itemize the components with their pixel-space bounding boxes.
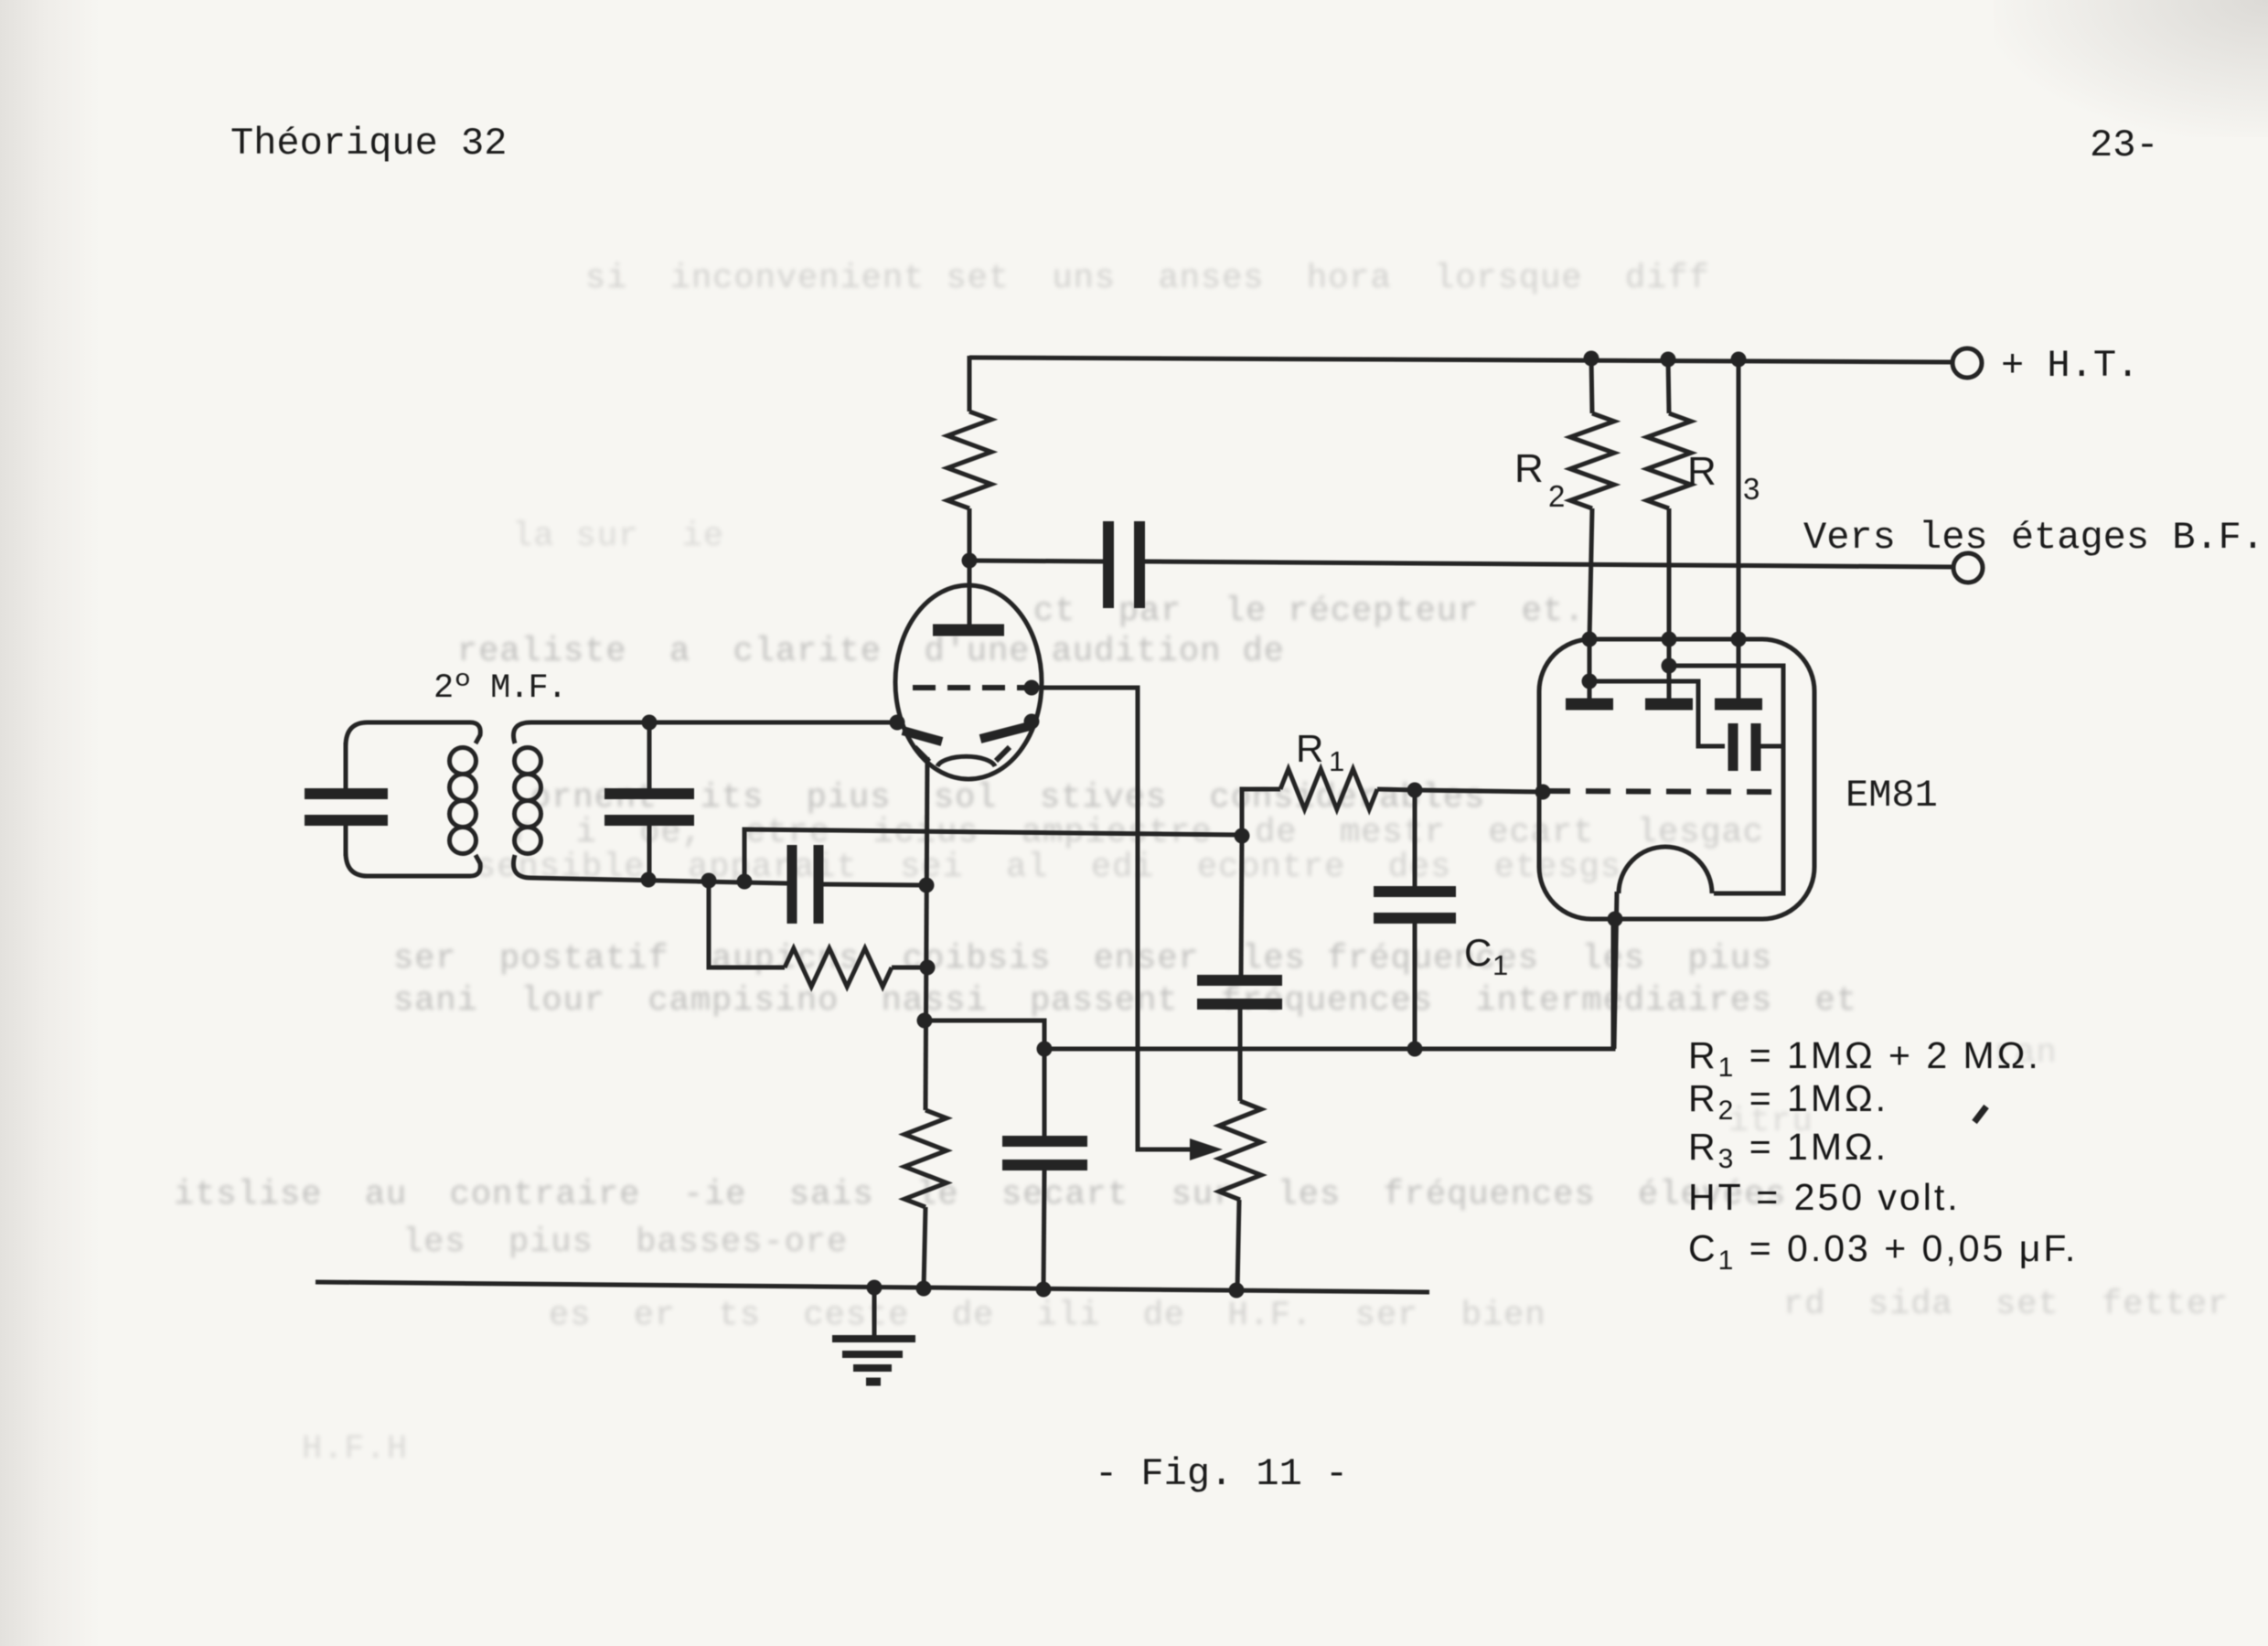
ground symbol: stub <box>872 1288 877 1338</box>
triode V1: envelope <box>895 585 1042 779</box>
EM81: internal link to cap left <box>1589 681 1725 746</box>
node: ground symbol junction <box>867 1280 883 1296</box>
node: EM81 top entry 1 <box>1582 632 1598 647</box>
svg-text:HT = 250 volt.: HT = 250 volt. <box>1688 1176 1961 1218</box>
EM81: electrode lead 3 <box>1737 639 1741 699</box>
node: C1 bottom junction <box>1407 1042 1423 1057</box>
svg-text:2: 2 <box>1548 479 1565 513</box>
capacitor: BF coupling, right plate <box>1134 521 1145 608</box>
wire: R2 bottom lead <box>1589 508 1592 639</box>
ground symbol: bar 1 <box>832 1335 915 1342</box>
resistor R1 <box>1280 769 1377 809</box>
node: EM81 internal node 1 <box>1582 674 1598 689</box>
node: junction R2 on HT rail <box>1584 351 1599 367</box>
triode V1: cathode arc <box>937 756 995 766</box>
capacitor: cathode bypass, bottom plate <box>1002 1160 1087 1170</box>
svg-text:R2 = 1MΩ.: R2 = 1MΩ. <box>1688 1077 1888 1126</box>
capacitor: EM81 internal, left plate <box>1728 723 1738 771</box>
node: bypass cap junction <box>1037 1042 1053 1057</box>
svg-text:R: R <box>1514 446 1544 491</box>
EM81: internal link cap right <box>1760 744 1783 749</box>
node: bypass cap on ground bus <box>1036 1282 1052 1298</box>
EM81: electrode plate 3 <box>1715 699 1762 711</box>
capacitor C1: bottom plate <box>1374 913 1456 924</box>
svg-text:3: 3 <box>1743 472 1760 506</box>
ground symbol: bar 2 <box>842 1351 903 1358</box>
capacitor: cathode bypass, top lead <box>1043 1049 1047 1137</box>
svg-text:+ H.T.: + H.T. <box>2001 344 2139 388</box>
capacitor: cathode bypass, top plate <box>1002 1136 1087 1147</box>
wire: C1 top lead <box>1413 790 1417 887</box>
EM81: cathode arc <box>1619 847 1712 893</box>
wire: grid cap to cathode line <box>823 884 926 885</box>
capacitor: secondary tuning, top plate <box>604 788 694 799</box>
ground symbol: bar 4 <box>866 1378 881 1386</box>
resistor: grid leak <box>785 948 892 987</box>
stray mark <box>1974 1106 1986 1122</box>
capacitor: grid cap left plate <box>787 845 797 924</box>
IF secondary: bottom wire <box>513 855 787 883</box>
node: grid leak on cathode line <box>920 960 936 976</box>
node: grid exit of triode <box>1024 680 1040 696</box>
capacitor: grid cap right plate <box>814 845 824 924</box>
node: secondary cap top <box>642 715 658 731</box>
svg-text:R: R <box>1687 449 1717 494</box>
EM81: electrode lead 1 <box>1588 639 1592 699</box>
IF secondary: cap top lead <box>647 722 652 789</box>
capacitor: BF coupling, left plate <box>1103 521 1114 608</box>
node: cathode resistor on ground bus <box>916 1281 932 1297</box>
capacitor: detector filter, bottom plate <box>1197 999 1282 1010</box>
node: R1 left junction <box>1235 828 1250 844</box>
node: AVC branch down <box>701 873 717 889</box>
arrow: potentiometer wiper <box>1190 1138 1223 1160</box>
triode V1: right diode tick <box>996 747 1010 761</box>
svg-text:1: 1 <box>1329 745 1344 777</box>
resistor R3 <box>1647 413 1691 508</box>
node: AVC branch up <box>737 874 753 890</box>
capacitor: EM81 internal, right plate <box>1751 723 1761 771</box>
EM81: electrode lead 2 <box>1667 639 1672 699</box>
node: R1 right / C1 top <box>1407 783 1423 798</box>
wire: grid leak to cathode line <box>892 966 927 970</box>
node: cathode branch junction <box>917 1013 933 1029</box>
EM81: internal right-side link <box>1669 666 1783 893</box>
capacitor: secondary tuning, bottom plate <box>604 815 694 826</box>
ground symbol: bar 3 <box>853 1364 892 1372</box>
svg-text:1: 1 <box>1492 949 1508 981</box>
svg-text:R: R <box>1296 727 1323 770</box>
EM81: electrode plate 2 <box>1645 699 1693 711</box>
node: junction wire-3 on HT rail <box>1731 352 1747 368</box>
wire: R1 node to EM81 grid <box>1415 790 1544 792</box>
node: EM81 top entry 2 <box>1662 632 1677 647</box>
capacitor C1: top plate <box>1374 886 1456 897</box>
node: EM81 top entry 3 <box>1731 632 1747 647</box>
wire: R3 top lead <box>1668 359 1669 413</box>
resistor: volume potentiometer <box>1219 1101 1261 1200</box>
wire: R1 left lead <box>1242 789 1280 836</box>
triode V1: left diode plate <box>903 731 942 742</box>
capacitor: primary tuning, bottom plate <box>305 815 388 826</box>
triode V1: left diode tick <box>915 747 929 762</box>
node: grid cap on cathode line <box>919 878 935 893</box>
IF primary: cap top lead <box>344 743 348 789</box>
svg-text:R1 = 1MΩ + 2 MΩ.: R1 = 1MΩ + 2 MΩ. <box>1688 1034 2041 1083</box>
terminal: + H.T. <box>1952 348 1982 378</box>
svg-text:2º M.F.: 2º M.F. <box>433 669 566 708</box>
triode V1: anode plate <box>933 625 1004 636</box>
svg-text:Théorique 32: Théorique 32 <box>230 122 507 166</box>
wire: ground bus <box>316 1282 1429 1292</box>
node: anode / coupling junction <box>962 553 978 569</box>
IF primary: bottom wire <box>346 852 480 876</box>
wire: R1 node down to filter cap <box>1241 836 1242 976</box>
svg-text:C1 = 0.03 + 0,05 μF.: C1 = 0.03 + 0,05 μF. <box>1688 1227 2078 1276</box>
triode V1: right diode plate <box>980 726 1030 739</box>
resistor: triode anode load <box>947 411 991 508</box>
node: right diode at tube wall <box>1024 714 1040 730</box>
node: potentiometer on ground bus <box>1229 1283 1245 1299</box>
capacitor: detector filter, top plate <box>1197 975 1282 986</box>
wire: +H.T. supply rail <box>969 358 1951 362</box>
IF secondary: cap bottom lead <box>647 825 652 882</box>
wire: R3 bottom lead <box>1667 508 1672 639</box>
EM81: cathode lead <box>1614 892 1617 1049</box>
node: junction R3 on HT rail <box>1661 352 1676 368</box>
node: EM81 cathode at envelope <box>1608 912 1623 927</box>
wire: cathode link to EM81 cathode <box>925 919 1613 1049</box>
wire: anode lead <box>968 508 972 626</box>
wire: third feed to EM81 <box>1737 359 1741 639</box>
wire: bypass cap to ground <box>1043 1170 1044 1289</box>
wire: R1 right lead <box>1377 789 1415 790</box>
IF primary: top wire <box>346 722 480 746</box>
resistor: cathode bias <box>904 1110 947 1207</box>
node: EM81 internal node 2 <box>1662 658 1677 674</box>
IF primary: cap bottom lead <box>344 825 348 856</box>
svg-text:23-: 23- <box>2090 123 2159 167</box>
wire: AVC upper branch to R1 <box>744 829 1242 882</box>
wire: coupling line left segment <box>969 561 1104 561</box>
svg-text:Vers les étages B.F.: Vers les étages B.F. <box>1803 516 2264 560</box>
IF secondary: top wire to diode <box>513 722 897 743</box>
wire: grid to volume potentiometer wiper <box>1032 688 1196 1149</box>
wire: R2 top lead <box>1591 358 1592 413</box>
wire: cathode vertical line <box>925 757 927 1110</box>
svg-text:EM81: EM81 <box>1845 774 1938 818</box>
node: secondary cap bottom <box>641 872 657 888</box>
svg-text:R3 = 1MΩ.: R3 = 1MΩ. <box>1688 1126 1888 1174</box>
wire: C1 bottom lead <box>1413 923 1417 1049</box>
wire: cathode resistor to ground <box>924 1207 925 1289</box>
wire: potentiometer to ground <box>1237 1200 1239 1290</box>
resistor R2 <box>1570 413 1614 508</box>
node: EM81 grid entry <box>1535 785 1551 800</box>
wire: coupling line right segment <box>1144 561 1952 567</box>
inductor: IF primary coil <box>450 748 476 854</box>
wire: HT rail to anode resistor <box>968 356 972 411</box>
svg-text:C: C <box>1464 931 1492 974</box>
inductor: IF secondary coil <box>515 748 541 854</box>
svg-text:- Fig. 11 -: - Fig. 11 - <box>1095 1452 1348 1496</box>
capacitor: primary tuning, top plate <box>305 788 388 799</box>
wire: filter cap to potentiometer <box>1238 1009 1243 1101</box>
wire: AVC branch down to grid leak <box>709 881 785 967</box>
terminal: B.F. output <box>1953 553 1983 583</box>
EM81: grid (dashed) <box>1546 791 1783 792</box>
EM81: envelope <box>1539 639 1814 919</box>
triode V1: grid (dashed) <box>913 685 1032 690</box>
EM81: electrode plate 1 <box>1566 699 1613 711</box>
node: diode input at tube wall <box>890 715 905 731</box>
